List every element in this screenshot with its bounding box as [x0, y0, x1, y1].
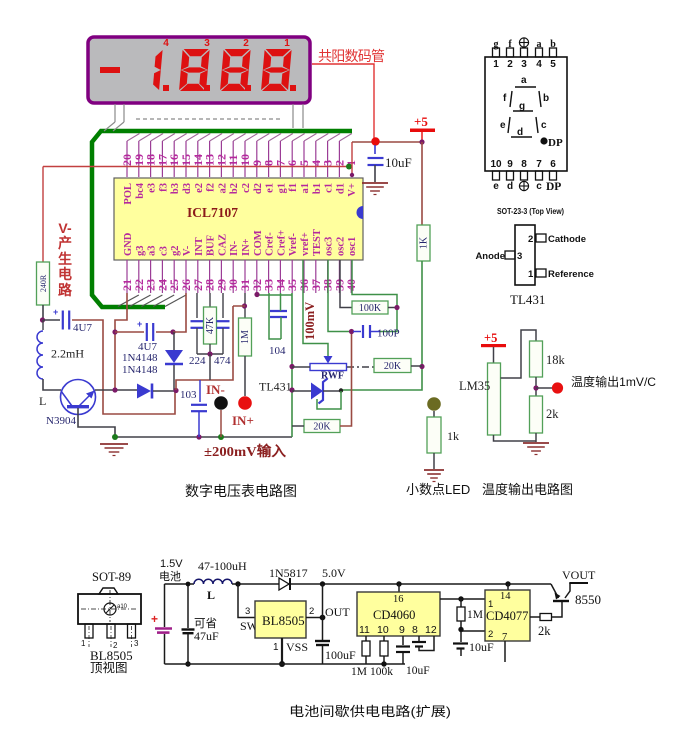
svg-text:8: 8	[521, 159, 527, 170]
svg-text:g1: g1	[276, 183, 287, 194]
svg-text:4: 4	[536, 59, 542, 70]
svg-text:d: d	[507, 181, 513, 192]
svg-text:11: 11	[359, 624, 370, 636]
svg-text:1.5V: 1.5V	[160, 558, 183, 570]
svg-text:b3: b3	[170, 183, 181, 194]
svg-text:224: 224	[189, 355, 206, 367]
svg-text:BUF: BUF	[206, 235, 217, 256]
svg-text:100K: 100K	[359, 303, 382, 314]
svg-text:数字电压表电路图: 数字电压表电路图	[185, 483, 297, 499]
svg-text:474: 474	[214, 355, 231, 367]
svg-text:1K: 1K	[419, 236, 430, 249]
svg-text:1M: 1M	[351, 666, 367, 678]
svg-text:8550: 8550	[575, 592, 601, 607]
svg-text:V-: V-	[182, 245, 193, 256]
svg-text:e2: e2	[194, 183, 205, 193]
svg-text:2: 2	[528, 234, 533, 245]
svg-text:g3: g3	[135, 246, 146, 257]
svg-text:e: e	[493, 181, 499, 192]
svg-text:a: a	[521, 75, 527, 86]
svg-text:BL8505: BL8505	[262, 613, 305, 628]
svg-text:电池: 电池	[159, 570, 181, 583]
svg-text:16: 16	[393, 594, 404, 605]
svg-text:IN+: IN+	[232, 413, 254, 428]
svg-text:3: 3	[204, 38, 210, 49]
svg-text:2k: 2k	[546, 407, 559, 421]
svg-text:c1: c1	[324, 183, 335, 193]
svg-text:V+: V+	[347, 183, 358, 197]
svg-text:100k: 100k	[370, 666, 393, 678]
svg-text:1: 1	[493, 59, 499, 70]
svg-text:DP: DP	[548, 137, 563, 149]
svg-text:LM35: LM35	[459, 379, 490, 393]
svg-text:TL431: TL431	[259, 380, 292, 394]
svg-text:+5: +5	[414, 114, 428, 129]
svg-text:bc4: bc4	[135, 182, 146, 199]
svg-text:a1: a1	[300, 183, 311, 194]
svg-text:100uF: 100uF	[325, 648, 356, 662]
svg-text:电: 电	[58, 266, 72, 282]
svg-text:f2: f2	[206, 183, 217, 192]
svg-text:1N4148: 1N4148	[122, 364, 158, 376]
svg-text:d2: d2	[253, 183, 264, 194]
svg-text:POL: POL	[123, 183, 134, 205]
svg-text:8: 8	[412, 624, 418, 636]
svg-text:10uF: 10uF	[406, 665, 430, 677]
svg-text:2: 2	[243, 38, 249, 49]
svg-text:3: 3	[517, 251, 522, 262]
svg-text:7: 7	[536, 159, 542, 170]
svg-text:4U7: 4U7	[73, 322, 92, 334]
svg-text:20: 20	[120, 154, 134, 166]
svg-text:f1: f1	[288, 183, 299, 192]
svg-text:c: c	[536, 181, 542, 192]
svg-text:b: b	[550, 39, 556, 50]
svg-text:VSS: VSS	[286, 640, 308, 654]
svg-text:100P: 100P	[377, 328, 400, 340]
svg-text:100mV: 100mV	[303, 302, 317, 340]
svg-text:g: g	[494, 39, 499, 50]
svg-text:b2: b2	[229, 183, 240, 194]
svg-text:vref+: vref+	[300, 232, 311, 256]
svg-text:TL431: TL431	[510, 292, 545, 307]
svg-text:电池间歇供电电路(扩展): 电池间歇供电电路(扩展)	[289, 704, 451, 719]
svg-text:osc3: osc3	[324, 237, 335, 256]
svg-text:14: 14	[500, 591, 511, 602]
svg-text:1: 1	[284, 38, 290, 49]
svg-text:3: 3	[134, 639, 139, 648]
svg-text:1: 1	[81, 639, 86, 648]
svg-text:9: 9	[399, 624, 405, 636]
svg-text:1k: 1k	[447, 429, 459, 443]
svg-text:a: a	[537, 39, 542, 50]
svg-text:b1: b1	[312, 183, 323, 194]
svg-text:顶视图: 顶视图	[90, 660, 128, 675]
svg-text:c2: c2	[241, 183, 252, 193]
svg-text:a3: a3	[147, 246, 158, 257]
svg-text:L: L	[39, 394, 46, 408]
svg-text:产: 产	[58, 235, 72, 251]
svg-text:3: 3	[521, 59, 527, 70]
svg-text:Cref-: Cref-	[265, 232, 276, 256]
svg-text:+: +	[151, 612, 158, 626]
svg-text:Anode: Anode	[475, 251, 505, 262]
svg-text:1M: 1M	[467, 609, 483, 621]
svg-text:1: 1	[528, 269, 534, 280]
svg-text:g: g	[519, 101, 525, 112]
svg-text:INT: INT	[194, 237, 205, 256]
svg-text:V-: V-	[58, 220, 72, 236]
svg-text:e1: e1	[265, 183, 276, 193]
svg-text:f3: f3	[158, 183, 169, 192]
svg-text:a2: a2	[217, 183, 228, 194]
svg-text:e: e	[500, 120, 506, 131]
svg-text:b: b	[543, 93, 549, 104]
svg-text:d3: d3	[182, 183, 193, 194]
svg-text:IN+: IN+	[241, 238, 252, 256]
svg-text:d1: d1	[335, 183, 346, 194]
svg-text:18k: 18k	[546, 353, 566, 367]
svg-text:47uF: 47uF	[194, 629, 219, 643]
svg-text:2: 2	[507, 59, 513, 70]
svg-text:VOUT: VOUT	[562, 568, 596, 582]
svg-text:2k: 2k	[538, 624, 551, 638]
svg-text:1N5817: 1N5817	[269, 566, 308, 580]
svg-text:SOT-23-3 (Top View): SOT-23-3 (Top View)	[497, 206, 564, 216]
svg-text:COM: COM	[253, 230, 264, 256]
svg-text:9: 9	[507, 159, 513, 170]
svg-text:Vref-: Vref-	[288, 233, 299, 256]
svg-text:5.0V: 5.0V	[322, 566, 346, 580]
svg-text:40: 40	[344, 279, 358, 291]
svg-text:e3: e3	[147, 183, 158, 193]
svg-text:osc2: osc2	[335, 237, 346, 256]
svg-text:+5: +5	[484, 331, 497, 345]
svg-text:103: 103	[180, 389, 197, 401]
svg-text:240R: 240R	[39, 274, 48, 292]
svg-text:osc1: osc1	[347, 237, 358, 256]
svg-text:20K: 20K	[384, 361, 402, 372]
svg-text:共阳数码管: 共阳数码管	[318, 48, 385, 64]
svg-text:3: 3	[245, 606, 250, 617]
svg-text:104: 104	[269, 345, 286, 357]
svg-text:d: d	[517, 127, 523, 138]
svg-text:+: +	[53, 307, 58, 317]
svg-text:+: +	[137, 319, 142, 329]
svg-text:5: 5	[550, 59, 556, 70]
svg-text:OUT: OUT	[325, 605, 350, 619]
svg-text:47K: 47K	[205, 316, 216, 334]
svg-text:±200mV输入: ±200mV输入	[204, 443, 286, 460]
svg-text:1M: 1M	[240, 330, 251, 344]
svg-text:CD4077: CD4077	[486, 609, 528, 623]
svg-text:CAZ: CAZ	[217, 234, 228, 256]
svg-text:温度输出电路图: 温度输出电路图	[482, 482, 573, 497]
svg-text:47-100uH: 47-100uH	[198, 559, 247, 573]
svg-text:12: 12	[425, 624, 437, 636]
svg-text:c3: c3	[158, 246, 169, 256]
svg-text:IN-: IN-	[229, 240, 240, 256]
svg-text:1N4148: 1N4148	[122, 352, 158, 364]
svg-text:温度输出1mV/C: 温度输出1mV/C	[571, 374, 656, 389]
svg-text:2: 2	[488, 629, 493, 640]
svg-text:1: 1	[273, 642, 279, 653]
svg-text:CD4060: CD4060	[373, 608, 415, 622]
svg-text:10uF: 10uF	[469, 640, 494, 654]
svg-text:N3904: N3904	[46, 415, 76, 427]
svg-text:20K: 20K	[313, 422, 331, 433]
svg-text:Cathode: Cathode	[548, 234, 586, 245]
svg-text:4: 4	[163, 38, 169, 49]
svg-text:路: 路	[58, 282, 73, 298]
svg-text:2: 2	[309, 606, 314, 617]
svg-text:IN-: IN-	[206, 382, 225, 397]
svg-text:GND: GND	[123, 232, 134, 256]
svg-text:2.2mH: 2.2mH	[51, 347, 84, 361]
svg-text:6: 6	[550, 159, 556, 170]
svg-text:ICL7107: ICL7107	[187, 205, 238, 220]
svg-text:生: 生	[58, 251, 72, 267]
svg-text:小数点LED: 小数点LED	[406, 482, 470, 497]
svg-text:10: 10	[377, 624, 389, 636]
svg-text:TEST: TEST	[312, 229, 323, 256]
svg-text:DP: DP	[546, 181, 561, 193]
svg-text:Reference: Reference	[548, 269, 594, 280]
svg-text:10uF: 10uF	[385, 155, 412, 170]
svg-text:g2: g2	[170, 246, 181, 257]
svg-text:c: c	[541, 120, 547, 131]
svg-text:Cref+: Cref+	[276, 230, 287, 256]
svg-text:SOT-89: SOT-89	[92, 570, 131, 584]
svg-text:10: 10	[490, 159, 502, 170]
svg-text:L: L	[207, 588, 215, 602]
